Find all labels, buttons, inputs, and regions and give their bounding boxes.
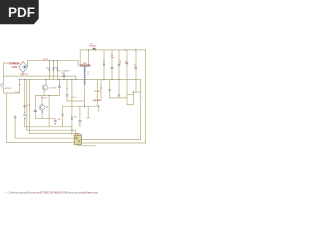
diode D3 (57, 67, 61, 72)
glyph on x15.1 (14, 117, 17, 118)
wire top-left horizontal (4, 62, 20, 64)
transformer dots (88, 72, 89, 73)
svg-text:C4: C4 (61, 73, 63, 75)
wire x109.7 from bus2 (109, 80, 111, 98)
wire Q1 stem down (43, 90, 45, 96)
cap x119 lower (118, 95, 121, 96)
wire right rail A from bus2 (140, 80, 142, 140)
wire vertical x26.8 (26, 80, 28, 131)
svg-text:R8 6k2: R8 6k2 (94, 91, 101, 93)
wire vertical x112 (111, 50, 113, 80)
svg-text:D9 FR: D9 FR (43, 59, 49, 61)
cap x67 bars (66, 88, 77, 99)
glyph x55.2 (54, 120, 57, 124)
wire x77.6 to box (77, 134, 79, 136)
svg-text:MUR460: MUR460 (89, 46, 96, 48)
wire left rail top (3, 63, 5, 84)
wire cap x59.4 lower (58, 88, 60, 96)
wire return y76 (4, 75, 76, 77)
svg-text:Q1 C945: Q1 C945 (48, 87, 57, 89)
wire cap x59.4 stem (58, 80, 60, 86)
svg-text:TOP224: TOP224 (93, 100, 101, 102)
svg-text:R7 4k7: R7 4k7 (41, 97, 48, 99)
cap on x24.7 upper (23, 106, 26, 107)
cap C3 x112 (110, 55, 114, 69)
wire bus1 right corner down (77, 61, 79, 66)
wire cap x67 lower (66, 96, 68, 101)
wire vertical x119 top (118, 50, 120, 80)
svg-text:D1: D1 (46, 68, 48, 70)
wire left rail below source (3, 88, 5, 93)
svg-text:D3: D3 (58, 70, 60, 72)
wire bridge bottom down (22, 73, 24, 77)
wire h y100.2 (93, 99, 101, 101)
resistor on x109.7 (108, 90, 111, 91)
diode on x104 (103, 61, 105, 66)
wire box bottom stub (77, 144, 79, 145)
wire box left feed pin2 (7, 142, 74, 144)
svg-text:ALTERNADOR: ALTERNADOR (9, 63, 20, 66)
svg-text:R11: R11 (74, 117, 77, 119)
wire mid bottom horizontal (63, 105, 99, 107)
cap x127 (125, 61, 129, 65)
wire diode D2 vertical (52, 61, 54, 80)
glyph on x23.8 (23, 112, 26, 119)
cap x119 (118, 60, 122, 65)
source V1 circle (1, 84, 4, 87)
transistor Q2 (39, 105, 49, 113)
glyph x71.9 (71, 116, 73, 120)
wire line1 drop to bus2 (75, 76, 77, 80)
PDF badge (0, 0, 39, 24)
wire right rail B from bus3 (145, 50, 147, 143)
wire Q2 stem down (41, 110, 43, 118)
wire diode D3 vertical (56, 61, 58, 80)
tick x88.2 end (87, 117, 90, 119)
wire transformer right pin (88, 50, 90, 65)
capacitor C4 on bus2 (61, 73, 65, 77)
cap on x35.6 (33, 110, 37, 111)
wire vertical x29.5 (29, 80, 31, 134)
wire h y104.5 (127, 104, 133, 106)
glyph x62.6 (61, 114, 64, 115)
wire source bottom horizontal (4, 92, 20, 94)
wire probe arrow stem (19, 80, 21, 84)
svg-text:PDF: PDF (8, 5, 35, 20)
transformer TR1 core (80, 64, 91, 66)
svg-text:R4: R4 (28, 105, 30, 107)
wire h y97.9 (110, 97, 127, 99)
wire diode D1 vertical (48, 61, 50, 80)
wire nested h3 (30, 133, 78, 135)
svg-text:10u: 10u (125, 63, 128, 65)
wire bottom stub right (78, 145, 96, 147)
svg-text:0-80V: 0-80V (12, 67, 18, 69)
wire x133.4 to rail A (133, 91, 140, 93)
wire cap C4 stem (63, 73, 65, 80)
wire h y118.7 (36, 118, 56, 120)
wire x35.6 down (35, 96, 37, 119)
wire bus2 main (20, 79, 141, 81)
wire x119 lower (118, 80, 120, 98)
wire vertical x24.7 (24, 80, 26, 113)
wire nested h2 (27, 129, 76, 131)
svg-text:D2: D2 (54, 68, 56, 70)
optocoupler U2 box (74, 135, 81, 144)
wire x133.4 down (132, 92, 134, 104)
wire mid vertical x71.9 (71, 80, 73, 136)
wire mid vertical x62.6 low (62, 116, 64, 126)
wire h y95.6 (36, 95, 60, 97)
wire mid vertical x62.6 (62, 106, 64, 113)
svg-text:AC220V: AC220V (5, 87, 12, 90)
probe arrow (19, 84, 21, 87)
wire nested h4 to box pin1 (15, 137, 73, 139)
svg-text:R10: R10 (58, 119, 61, 121)
wire arrow to y93 (19, 88, 21, 94)
wire x88.2 lower (87, 106, 89, 118)
wire bridge right vertex up (27, 61, 29, 67)
svg-text:ac dc: ac dc (15, 91, 20, 93)
wire cap x67 stem (66, 80, 68, 95)
wire box right pin1 (82, 139, 141, 141)
transistor Q1 (42, 85, 57, 91)
diode D1 (46, 67, 50, 71)
svg-text:5v6: 5v6 (134, 67, 137, 69)
wire vertical x101 (100, 80, 102, 101)
transformer coil winding (84, 67, 86, 86)
svg-text:— C:\Users\pmrodrigues\Documen: — C:\Users\pmrodrigues\Documents\ESTUDIO… (5, 191, 100, 195)
wire vertical x136 (135, 50, 137, 92)
wire vertical x127 (126, 50, 128, 105)
wire bus1 top-left (28, 60, 79, 62)
wire h y94.4 (127, 93, 133, 95)
wire mid vertical x79.9 low (79, 124, 81, 127)
wire x75.3 to box (74, 130, 76, 135)
wire vertical x104 (103, 50, 105, 80)
wire mid vertical x79.9 (79, 106, 81, 119)
wire Q2 stem up (41, 96, 43, 105)
wire vertical x97.3 (96, 80, 98, 107)
wire nested h1 (25, 126, 72, 128)
zener x136 (134, 65, 137, 69)
svg-text:47u: 47u (119, 63, 122, 65)
svg-text:1N4937: 1N4937 (62, 70, 70, 72)
wire box right pin2 (82, 142, 146, 144)
wire Q1 stem up (45, 80, 47, 85)
glyph x79.9 (79, 120, 82, 123)
wire x55.2 glyph stem (54, 118, 56, 121)
wire vertical x15.1 (14, 116, 16, 139)
wire bus3 left corner down (79, 50, 81, 65)
svg-text:100n: 100n (110, 57, 114, 59)
diode D5 on bus3 (89, 44, 96, 51)
svg-text:C9 1n: C9 1n (71, 97, 76, 99)
wire outer left rail (6, 93, 8, 143)
wire x98.8 lower (98, 106, 100, 112)
wire coil bottom down (84, 85, 86, 106)
wire h y101 (67, 100, 85, 102)
diode D2 (53, 67, 57, 71)
bridge rectifier B1 diamond (19, 62, 28, 73)
wire x49.1 down (48, 96, 50, 127)
svg-text:KBPC610: KBPC610 (20, 74, 28, 76)
wire bus3 top-right (80, 49, 145, 51)
wire vertical x24.7 low (24, 119, 26, 127)
junction dots (19, 49, 137, 131)
svg-text:PC817: PC817 (76, 134, 83, 136)
cap x59.4 bars (58, 85, 61, 88)
